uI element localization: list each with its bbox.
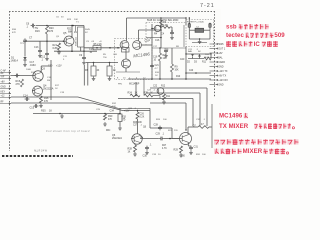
svg-text:5645 xtal: 5645 xtal (75, 37, 78, 46)
svg-text:R10: R10 (176, 76, 181, 78)
svg-text:1K: 1K (150, 93, 153, 95)
vertical x40 top (34, 41, 42, 53)
transistor U1a (120, 41, 129, 50)
wire base bus y41 (25, 40, 64, 42)
label Q7 (193, 125, 197, 128)
ground below C12 (45, 57, 49, 61)
wire emitter bus y51 (54, 50, 97, 52)
junction y138 (169, 138, 171, 140)
filter left leg (188, 23, 190, 30)
filter label (187, 21, 205, 23)
inner dashed box top (146, 23, 186, 47)
wire collector up (71, 25, 72, 37)
svg-text:GND: GND (1, 87, 6, 89)
filter bottom rail (189, 38, 210, 42)
svg-text:C34: C34 (110, 110, 115, 113)
svg-text:1K: 1K (49, 110, 52, 113)
wire y79 long (128, 78, 211, 80)
filter right leg (209, 23, 211, 30)
wire y48 bus (84, 47, 120, 49)
svg-text:.1Mfd: .1Mfd (30, 64, 37, 67)
label R8 (113, 69, 116, 72)
left pin rows (0, 70, 11, 105)
transistor U1c (122, 59, 131, 68)
wire y18 to filter (161, 17, 187, 25)
emitter resistor Q4 (39, 96, 43, 108)
capacitor C18 (164, 49, 168, 58)
resistor below Q8 (162, 94, 171, 104)
red note ssb generator line2 (226, 32, 285, 39)
capacitor series (15, 74, 20, 78)
red note ssb generator line3 (226, 41, 278, 48)
label MC1496 script (133, 51, 151, 58)
svg-text:6.8K: 6.8K (53, 47, 58, 50)
svg-text:ssb: ssb (226, 24, 237, 31)
svg-text:C26: C26 (140, 114, 145, 116)
dashed border right (214, 11, 216, 97)
left input label AF (0, 72, 11, 76)
wire to Q7 (164, 138, 179, 140)
transistor Q8 small (157, 88, 164, 95)
wire rail right down (75, 26, 77, 32)
svg-text:5M: 5M (47, 80, 50, 82)
svg-text:TX MIXER: TX MIXER (219, 123, 249, 130)
svg-text:Foil shown from top of board: Foil shown from top of board (46, 129, 90, 133)
label Q3 (42, 68, 46, 71)
resistor R24 1K (128, 92, 141, 97)
svg-text:4.7K: 4.7K (162, 148, 167, 150)
resistor R29 (174, 146, 183, 157)
top supply rail (36, 26, 84, 52)
svg-text:R24: R24 (128, 92, 133, 95)
diode D1 1N914 (23, 55, 26, 63)
svg-text:R5 2.2K: R5 2.2K (94, 44, 103, 46)
label carrier osc (147, 19, 179, 22)
junction mic (104, 113, 121, 115)
resistor R25 (144, 92, 154, 97)
red note mc1496 line1 (219, 113, 248, 120)
svg-text:+12V RX: +12V RX (218, 79, 228, 82)
svg-text:C27: C27 (133, 125, 138, 127)
label Q6 2N2222A (112, 134, 122, 140)
transistor Q3 2N2222A (33, 71, 44, 81)
resistor R21 6.8K (53, 43, 61, 50)
vertical x186 (180, 47, 186, 80)
label xtal vertical (75, 37, 78, 46)
svg-text:MIC: MIC (106, 129, 111, 132)
svg-text:C30: C30 (143, 155, 148, 158)
junction rail (46, 25, 74, 34)
wire x161 down (160, 18, 162, 48)
wire R20 down (46, 34, 48, 41)
bus wire y88 (150, 88, 207, 126)
label R3 (163, 21, 168, 27)
svg-text:OUT 1: OUT 1 (218, 48, 226, 51)
diagonal wire (78, 97, 150, 108)
svg-text:2N2222A: 2N2222A (43, 88, 54, 91)
svg-text:10K: 10K (175, 70, 180, 72)
wire pair down (84, 63, 88, 86)
wire right of IC (141, 45, 159, 79)
svg-text:509: 509 (274, 32, 285, 39)
IC package label (118, 84, 140, 86)
svg-text:C-AF: C-AF (1, 70, 7, 73)
svg-text:C13: C13 (34, 46, 39, 49)
label +12V (48, 65, 62, 68)
filter wires (189, 30, 210, 39)
svg-text:100K: 100K (26, 69, 32, 71)
junction y79 (151, 78, 187, 80)
diagonal wire 2 (93, 103, 150, 110)
resistor on x161 (160, 20, 163, 27)
wire row y97 (11, 96, 78, 98)
label C17 .1Mfd (30, 61, 37, 67)
capacitor C29 (156, 133, 165, 141)
wire emitter down (71, 46, 73, 52)
transistor Q5 oscillator (64, 36, 75, 46)
svg-text:+12V TX: +12V TX (218, 70, 228, 73)
ground small (60, 114, 64, 118)
svg-text:R33: R33 (122, 117, 127, 119)
svg-text:1K: 1K (135, 92, 138, 95)
wire Q7 right (188, 143, 191, 146)
svg-text:47K: 47K (12, 32, 16, 34)
svg-text:C16: C16 (153, 57, 158, 59)
svg-text:C15: C15 (30, 107, 35, 110)
svg-text:C28: C28 (154, 124, 159, 127)
svg-text:C29: C29 (156, 133, 161, 136)
transistor Q6 (131, 134, 142, 144)
filter ground (198, 40, 202, 44)
ground below D1 (23, 63, 27, 67)
misc value labels (12, 17, 210, 157)
filter dashed box FL-1 (186, 20, 214, 47)
dashed border left (9, 11, 11, 151)
wire IC top right (139, 30, 162, 41)
ground C13 (38, 54, 42, 58)
wire q2 stub (152, 24, 172, 45)
svg-text:C12: C12 (41, 56, 46, 59)
svg-text:C20: C20 (180, 59, 185, 61)
resistor R30 (103, 114, 113, 127)
resistor R28 (128, 144, 137, 156)
svg-text:R30: R30 (108, 116, 113, 118)
capacitor C6 (26, 23, 35, 29)
label C10 (145, 40, 150, 43)
mic jack stack (110, 108, 126, 126)
svg-text:C31: C31 (194, 146, 199, 149)
note all R (34, 150, 48, 153)
note foil shown (46, 129, 90, 133)
right pin stubs (210, 43, 229, 87)
svg-text:+12V: +12V (56, 65, 62, 68)
svg-text:5645: 5645 (85, 29, 91, 31)
svg-text:R28: R28 (128, 148, 133, 151)
svg-text:2N2222A: 2N2222A (112, 137, 122, 140)
svg-text:4K: 4K (97, 70, 100, 72)
svg-text:BAL: BAL (218, 57, 223, 60)
svg-text:R27: R27 (162, 145, 167, 147)
svg-text:R29: R29 (174, 149, 179, 152)
label R9 (164, 50, 179, 72)
svg-text:1K: 1K (128, 152, 131, 154)
junction y48b (152, 47, 186, 49)
svg-text:1K: 1K (113, 69, 116, 72)
capacitor C31 (189, 146, 198, 155)
wire U1c (116, 49, 140, 72)
capacitor C28 (154, 124, 162, 131)
capacitor C15b (30, 104, 39, 109)
junction x161 (160, 17, 162, 31)
box resistor R6 (91, 63, 96, 81)
boxed resistor R5 (93, 44, 102, 50)
svg-text:C22: C22 (153, 86, 158, 88)
vertical rail x51 (50, 60, 52, 100)
svg-text:5645 KC CAR OSC BAL MOD: 5645 KC CAR OSC BAL MOD (147, 19, 179, 22)
svg-text:-AF: -AF (1, 76, 5, 79)
boxed resistor base (122, 48, 130, 53)
filter top wire (184, 17, 190, 47)
capacitor C14 (23, 95, 29, 101)
wire Q3 collector (41, 66, 51, 72)
svg-text:+8V: +8V (1, 82, 6, 84)
page number 7-21 (200, 3, 215, 9)
dashed border top (9, 11, 215, 13)
filter crystal body (195, 27, 204, 33)
svg-text:2N: 2N (74, 32, 77, 34)
svg-text:KC: KC (85, 32, 88, 34)
vertical x160 (159, 48, 162, 79)
svg-text:ALL R 1/4 W: ALL R 1/4 W (34, 150, 48, 153)
mic ground (118, 126, 122, 130)
label Q4 2N2222A (43, 85, 54, 91)
transistor Q2 small (154, 25, 160, 31)
thick dashed bottom rule (2, 155, 73, 157)
label 7.5V R19 (33, 27, 40, 33)
svg-text:470: 470 (44, 100, 49, 103)
label 2N3904 (162, 145, 186, 158)
label R35 (41, 110, 61, 115)
svg-text:R35: R35 (41, 110, 46, 113)
svg-text:R12: R12 (161, 86, 166, 88)
label above Q6 (133, 122, 143, 127)
capacitor C30 (143, 145, 153, 158)
transistor Q4 2N2222A (32, 86, 43, 96)
svg-text:5645: 5645 (218, 43, 224, 46)
label Q5 (63, 32, 77, 35)
capacitor C7 (23, 37, 33, 44)
svg-text:MC1496: MC1496 (219, 113, 243, 120)
red note mc1496 line4 (214, 148, 288, 155)
scan tint over schematic area (0, 9, 221, 159)
resistor R20 470 (46, 26, 55, 35)
svg-text:IC: IC (254, 41, 261, 48)
balance network cluster (185, 50, 211, 64)
capacitor C8b (79, 51, 86, 64)
transistor U1b (133, 41, 142, 50)
svg-text:10K: 10K (112, 106, 116, 108)
label R16 (44, 97, 49, 103)
solid right line (211, 104, 213, 148)
wire y37.5 (146, 37, 162, 39)
label R10 (176, 70, 194, 78)
wire y95 join (153, 96, 160, 99)
wire Q7 collector up (185, 127, 188, 134)
vertical feeds (136, 79, 144, 96)
wire bottom bus y113.5 (33, 113, 120, 115)
svg-text:PIN: PIN (118, 84, 122, 86)
small parts dots (151, 28, 174, 40)
resistor R4 (154, 26, 170, 36)
transistor Q7 (179, 133, 192, 145)
svg-text:+12V: +12V (124, 111, 130, 113)
svg-text:KEY: KEY (1, 92, 6, 94)
label D1 1N914 (11, 57, 19, 63)
svg-text:470: 470 (49, 30, 54, 33)
wire y73 (185, 72, 211, 74)
svg-text:10K: 10K (205, 57, 209, 59)
svg-text:1N914: 1N914 (11, 60, 19, 63)
wire y128 in (150, 110, 179, 138)
resistor 47 (188, 123, 212, 128)
red note ssb generator line1 (226, 24, 269, 31)
IC dashed box MC1496 (115, 39, 153, 80)
wire x25 down (24, 41, 26, 55)
svg-text:+8V: +8V (218, 52, 223, 55)
label C15 10Mfd (89, 48, 94, 54)
svg-text:C14: C14 (23, 95, 28, 98)
svg-text:GND: GND (218, 66, 224, 69)
svg-text:C20: C20 (189, 70, 194, 72)
junction y51 (71, 50, 85, 52)
resistor R15 27K (16, 79, 24, 87)
bus wire y93 (146, 93, 200, 126)
wire y138 emitter bus (140, 137, 159, 139)
label R33 (122, 117, 127, 122)
wire AF in (11, 75, 33, 77)
svg-text:C21: C21 (155, 65, 160, 67)
svg-text:R22: R22 (67, 29, 72, 31)
svg-text:R26 10K: R26 10K (133, 122, 142, 124)
paper background (0, 0, 301, 161)
svg-text:tectec: tectec (226, 32, 244, 39)
svg-text:R19: R19 (35, 30, 40, 33)
red note mc1496 line3 (214, 139, 298, 145)
label C16c (148, 40, 160, 42)
svg-text:47K: 47K (108, 119, 113, 121)
bus wire y98 (118, 99, 193, 127)
capacitor C12 (41, 41, 49, 61)
wire row y103 (11, 102, 93, 104)
red note mc1496 line2 (219, 123, 295, 130)
label 12V (124, 111, 130, 113)
wire y110 stub (149, 108, 151, 110)
svg-text:7-21: 7-21 (200, 3, 215, 9)
label C22 (153, 86, 166, 88)
junction base (46, 40, 64, 42)
svg-text:C16: C16 (155, 40, 160, 42)
wire y62.5 (86, 62, 118, 64)
crystal Y1 box (78, 27, 85, 51)
vertical x172 (171, 48, 174, 79)
box resistor R8 (107, 63, 112, 81)
label R6 (85, 69, 100, 72)
svg-text:R25: R25 (144, 92, 149, 95)
ground R21 (57, 50, 61, 54)
svg-text:CARR: CARR (218, 61, 225, 64)
svg-text:+8V TX: +8V TX (218, 75, 226, 78)
label R7 10K (153, 54, 167, 62)
svg-text:2.2K: 2.2K (140, 117, 145, 119)
svg-text:MC1496P: MC1496P (129, 84, 140, 86)
wire IC top left (127, 18, 162, 41)
svg-text:MIXER: MIXER (243, 148, 263, 155)
svg-text:27K: 27K (16, 83, 21, 86)
resistor column x137 (136, 110, 147, 134)
svg-text:GND: GND (218, 84, 224, 87)
label mic jack (106, 129, 111, 132)
bus wire y103 (150, 103, 186, 130)
